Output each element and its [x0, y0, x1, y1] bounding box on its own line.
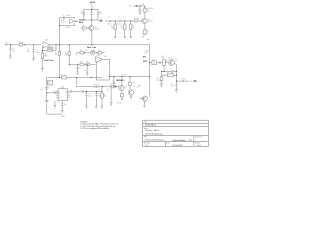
svg-text:3. C29 is an optional filter i: 3. C29 is an optional filter indicate.	[80, 127, 109, 130]
svg-text:7660: 7660	[60, 88, 64, 90]
svg-text:Gerard C. Beene: Gerard C. Beene	[145, 129, 159, 132]
svg-text:R?: R?	[98, 50, 100, 52]
svg-text:4k7: 4k7	[136, 18, 139, 20]
svg-text:47: 47	[124, 74, 126, 76]
svg-text:C?: C?	[62, 15, 64, 17]
svg-text:10k: 10k	[161, 56, 164, 58]
svg-text:33p: 33p	[27, 51, 30, 53]
svg-text:RV?: RV?	[85, 50, 88, 52]
svg-text:File: File	[144, 137, 147, 139]
svg-text:R?: R?	[80, 50, 82, 52]
svg-text:1k: 1k	[133, 86, 135, 88]
svg-text:MPSA13: MPSA13	[116, 79, 125, 82]
svg-text:10k: 10k	[82, 31, 85, 33]
svg-text:47k: 47k	[132, 27, 135, 29]
svg-text:100n: 100n	[85, 70, 89, 72]
svg-text:R?: R?	[167, 73, 169, 75]
svg-text:1 2: 1 2	[153, 63, 155, 65]
svg-text:Deseret Engineering: Deseret Engineering	[145, 132, 162, 135]
svg-text:10u: 10u	[40, 90, 43, 92]
svg-text:10u: 10u	[183, 79, 186, 81]
svg-text:IN?: IN?	[6, 42, 9, 44]
svg-text:MuAmp/Amp: MuAmp/Amp	[145, 124, 156, 127]
svg-text:100n: 100n	[67, 15, 71, 17]
svg-text:Bias Trim: Bias Trim	[87, 47, 96, 49]
svg-text:100u: 100u	[98, 95, 102, 97]
svg-text:OUT: OUT	[189, 81, 193, 83]
svg-text:10u: 10u	[99, 13, 102, 15]
svg-text:C?: C?	[112, 81, 114, 83]
svg-text:E:\Users\Paul\Projects -: E:\Users\Paul\Projects -	[145, 139, 165, 142]
svg-text:12-Okt-2015: 12-Okt-2015	[172, 144, 183, 147]
svg-text:2.1: 2.1	[145, 145, 148, 147]
svg-text:10k: 10k	[55, 54, 58, 56]
svg-text:C?: C?	[118, 17, 120, 19]
svg-text:47: 47	[113, 84, 115, 86]
svg-text:1 of 1: 1 of 1	[197, 145, 202, 147]
svg-text:TL072: TL072	[61, 22, 66, 24]
svg-text:100n: 100n	[81, 13, 85, 15]
svg-text:R?: R?	[86, 62, 88, 64]
svg-text:10k: 10k	[147, 11, 150, 13]
svg-text:10u: 10u	[12, 51, 15, 53]
svg-text:1k: 1k	[147, 33, 149, 35]
svg-text:R?: R?	[82, 25, 84, 27]
svg-text:4u7: 4u7	[175, 61, 178, 63]
svg-text:6: 6	[59, 97, 60, 99]
svg-text:TL072: TL072	[48, 46, 53, 48]
svg-text:Q?: Q?	[125, 86, 127, 88]
svg-text:10k: 10k	[104, 96, 107, 98]
svg-text:10k: 10k	[65, 54, 68, 56]
svg-text:PJ2: PJ2	[145, 53, 148, 55]
svg-text:D?: D?	[97, 84, 99, 86]
svg-text:R?: R?	[53, 48, 55, 50]
svg-text:ALIM: ALIM	[90, 1, 95, 4]
svg-text:Q?: Q?	[149, 96, 151, 98]
svg-text:10u: 10u	[36, 52, 39, 54]
svg-text:R?: R?	[61, 75, 63, 77]
svg-text:1u: 1u	[107, 91, 109, 93]
svg-text:10: 10	[171, 73, 173, 75]
svg-text:10k: 10k	[45, 55, 48, 57]
svg-text:C?: C?	[180, 79, 182, 81]
svg-text:5: 5	[66, 95, 67, 97]
svg-text:100n: 100n	[170, 86, 174, 88]
svg-text:TL072: TL072	[168, 59, 173, 61]
svg-text:100u: 100u	[88, 95, 92, 97]
svg-text:R?: R?	[133, 83, 135, 85]
svg-text:C?: C?	[53, 91, 55, 93]
svg-text:C?: C?	[142, 4, 144, 6]
svg-text:C?: C?	[58, 103, 60, 105]
svg-text:Gain Trim: Gain Trim	[44, 60, 53, 62]
svg-text:10u: 10u	[64, 104, 67, 106]
svg-text:SPK: SPK	[143, 61, 148, 63]
svg-text:C?: C?	[108, 17, 110, 19]
svg-text:470u: 470u	[149, 8, 153, 10]
svg-text:R?: R?	[80, 62, 82, 64]
svg-text:BC547: BC547	[95, 28, 100, 30]
svg-text:10: 10	[64, 75, 66, 77]
svg-text:BC547: BC547	[148, 21, 153, 23]
svg-text:C?: C?	[79, 67, 81, 69]
svg-text:10k: 10k	[21, 42, 24, 44]
svg-text:.dsn: .dsn	[189, 140, 193, 142]
svg-text:10k: 10k	[91, 50, 94, 52]
svg-text:R? 2k2: R? 2k2	[116, 103, 121, 105]
svg-text:J?: J?	[152, 59, 154, 61]
svg-text:C?: C?	[170, 69, 172, 71]
svg-text:D?: D?	[94, 84, 96, 86]
svg-text:100: 100	[157, 80, 160, 82]
